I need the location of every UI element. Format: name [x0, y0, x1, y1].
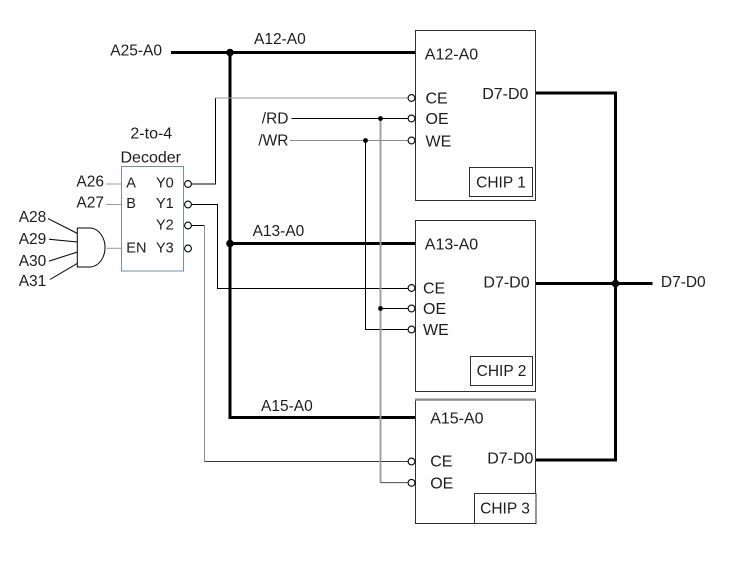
svg-text:CE: CE [423, 281, 445, 298]
svg-text:OE: OE [430, 476, 453, 493]
svg-text:2-to-4: 2-to-4 [130, 126, 172, 143]
svg-text:CHIP 3: CHIP 3 [480, 501, 530, 518]
svg-text:CE: CE [430, 454, 452, 471]
svg-text:CHIP 1: CHIP 1 [476, 174, 526, 191]
svg-text:WE: WE [426, 133, 452, 150]
svg-text:/WR: /WR [258, 132, 288, 149]
svg-text:Decoder: Decoder [121, 150, 182, 167]
svg-text:A31: A31 [19, 273, 47, 290]
svg-text:Y2: Y2 [156, 218, 174, 234]
svg-text:A: A [126, 176, 136, 192]
svg-text:A13-A0: A13-A0 [253, 223, 305, 240]
svg-text:A29: A29 [19, 231, 47, 248]
svg-text:/RD: /RD [262, 111, 289, 128]
svg-text:D7-D0: D7-D0 [487, 450, 533, 467]
svg-text:Y1: Y1 [156, 196, 174, 212]
svg-text:WE: WE [423, 322, 449, 339]
svg-text:A15-A0: A15-A0 [261, 398, 313, 415]
svg-text:EN: EN [126, 241, 146, 257]
svg-text:A13-A0: A13-A0 [425, 237, 478, 254]
svg-text:OE: OE [423, 301, 446, 318]
svg-text:A12-A0: A12-A0 [254, 31, 306, 48]
svg-text:Y0: Y0 [156, 176, 174, 192]
svg-text:D7-D0: D7-D0 [661, 274, 706, 291]
svg-text:A25-A0: A25-A0 [110, 43, 162, 60]
svg-text:B: B [126, 196, 136, 212]
svg-text:CHIP 2: CHIP 2 [477, 363, 527, 380]
svg-text:A12-A0: A12-A0 [425, 47, 478, 64]
svg-text:D7-D0: D7-D0 [482, 86, 528, 103]
svg-text:D7-D0: D7-D0 [483, 275, 529, 292]
svg-text:CE: CE [426, 91, 448, 108]
svg-text:A28: A28 [19, 209, 47, 226]
svg-text:Y3: Y3 [156, 241, 174, 257]
svg-text:A26: A26 [76, 174, 104, 191]
svg-text:OE: OE [426, 111, 449, 128]
svg-text:A30: A30 [19, 253, 47, 270]
svg-text:A27: A27 [76, 195, 104, 212]
svg-text:A15-A0: A15-A0 [430, 410, 483, 427]
